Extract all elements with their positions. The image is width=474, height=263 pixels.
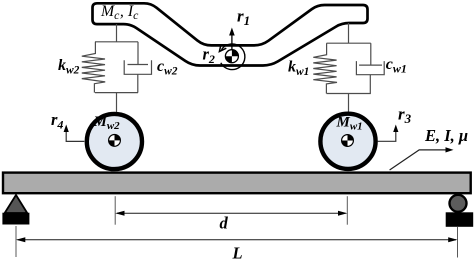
svg-text:kw1: kw1 <box>288 58 309 78</box>
svg-text:r3: r3 <box>398 105 412 127</box>
svg-text:r1: r1 <box>237 7 250 29</box>
svg-text:E, I, μ: E, I, μ <box>424 126 468 145</box>
svg-text:r4: r4 <box>51 110 63 132</box>
svg-text:kw2: kw2 <box>58 57 80 77</box>
svg-text:cw1: cw1 <box>386 56 407 76</box>
svg-text:d: d <box>220 213 229 232</box>
svg-text:cw2: cw2 <box>157 58 178 78</box>
svg-text:L: L <box>232 244 243 263</box>
